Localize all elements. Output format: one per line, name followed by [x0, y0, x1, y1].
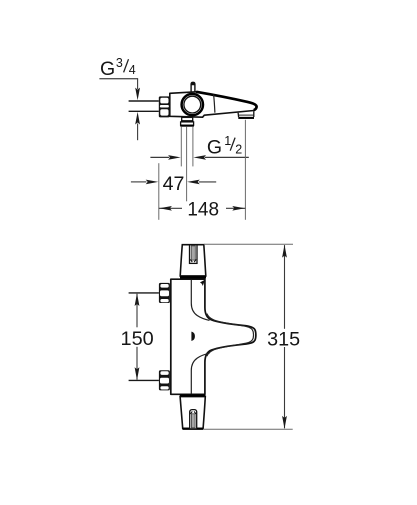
spout aerator outlet	[238, 111, 254, 118]
svg-text:315: 315	[267, 329, 300, 351]
dimension 315 arrowhead up	[282, 245, 287, 258]
extension line bottom (dim 315)	[203, 428, 292, 430]
G 3/4 leader line down	[137, 79, 139, 89]
mixer body and spout silhouette (plan)	[171, 279, 256, 394]
flow knob slot chamfer	[190, 411, 192, 414]
temperature knob grip slot outline	[190, 245, 198, 264]
temperature knob base thick bar	[180, 276, 206, 278]
flow knob base thick bar	[180, 394, 206, 396]
spout rim inner curve (plan)	[207, 314, 254, 357]
svg-text:150: 150	[121, 328, 154, 350]
union nut lower (plan view)	[159, 370, 170, 390]
dimension 315 line lower segment	[284, 347, 286, 428]
inlet pipe lower (plan)	[129, 379, 159, 381]
dimension 148 left arrowhead	[159, 206, 172, 211]
svg-text:G: G	[207, 137, 222, 159]
dimension 150 line upper segment	[136, 294, 138, 328]
shower outlet coupling bottom bar	[180, 125, 194, 127]
spout top edge thick accent	[196, 92, 256, 110]
G 1/2 arrowhead pointing left at pipe	[193, 155, 206, 160]
extension line left (dim 47 and 148)	[158, 163, 160, 220]
label G 3/4 underline	[99, 78, 138, 80]
svg-text:3: 3	[116, 56, 123, 70]
outlet projection line left	[180, 127, 182, 167]
G 1/2 underline with arrow tail	[205, 156, 249, 158]
dimension 315 arrowhead down	[282, 416, 287, 429]
shower outlet neck below body	[182, 117, 193, 121]
svg-text:47: 47	[163, 173, 185, 195]
dimension 148 line right segment	[226, 207, 245, 209]
flow knob bottom edge thick	[183, 428, 204, 430]
button marker on body	[191, 332, 195, 341]
dimension 47 left arrowhead	[146, 180, 159, 185]
dimension 148 line left segment	[159, 207, 182, 209]
svg-text:4: 4	[129, 63, 136, 77]
handle lever pin	[191, 82, 195, 92]
svg-text:1: 1	[224, 134, 231, 148]
inlet pipe G3/4 lower line	[129, 110, 159, 112]
body interior contour upper	[191, 280, 209, 321]
flow knob grip slot outline	[190, 410, 197, 429]
inlet pipe G3/4 upper line	[129, 100, 159, 102]
dimension 47 right arrow tail	[199, 181, 216, 183]
shower outlet coupling	[181, 122, 194, 125]
dimension 47 left arrow tail	[131, 181, 147, 183]
thermostat handle circle inner	[184, 96, 201, 113]
dimension 150 arrowhead down	[135, 367, 140, 380]
spout seam line	[214, 95, 215, 113]
union nut upper (plan view)	[159, 283, 170, 303]
dimension 315 line upper segment	[284, 245, 286, 329]
flow knob grip insert	[191, 414, 195, 428]
G 1/2 left arrow tail	[150, 156, 169, 158]
inlet pipe upper (plan)	[129, 292, 159, 294]
label G 3/4 fraction slash	[124, 59, 129, 72]
dimension 47 right arrowhead	[187, 180, 200, 185]
svg-text:148: 148	[187, 199, 219, 221]
shower outlet neck flange	[181, 120, 193, 122]
flow handle knob (bottom)	[180, 397, 205, 429]
G 3/4 lower arrow tail	[137, 124, 139, 141]
label G 1/2 fraction slash	[230, 138, 235, 151]
dimension 148 right arrowhead	[232, 206, 245, 211]
small direction arrow at body corner	[200, 280, 205, 286]
body interior contour lower	[191, 353, 209, 394]
temperature knob grip insert	[191, 246, 195, 260]
temperature knob slot chamfer	[190, 259, 192, 262]
outlet centerline extension	[186, 127, 188, 202]
dimension 150 line lower segment	[136, 347, 138, 380]
thermostat handle circle outer	[182, 94, 203, 115]
G 3/4 arrowhead down	[135, 88, 140, 101]
extension line top (dim 315)	[204, 243, 293, 245]
temperature handle knob (top)	[180, 245, 206, 276]
outlet projection line right	[192, 127, 194, 167]
extension line right of dim 148	[244, 120, 246, 220]
G 3/4 arrowhead up	[135, 112, 140, 125]
union nut on inlet (side view)	[159, 96, 170, 117]
svg-text:2: 2	[235, 142, 242, 156]
G 1/2 left arrowhead pointing right	[168, 155, 181, 160]
svg-text:G: G	[100, 58, 115, 80]
dimension 150 arrowhead up	[135, 293, 140, 306]
mixer body and spout silhouette	[170, 92, 257, 117]
